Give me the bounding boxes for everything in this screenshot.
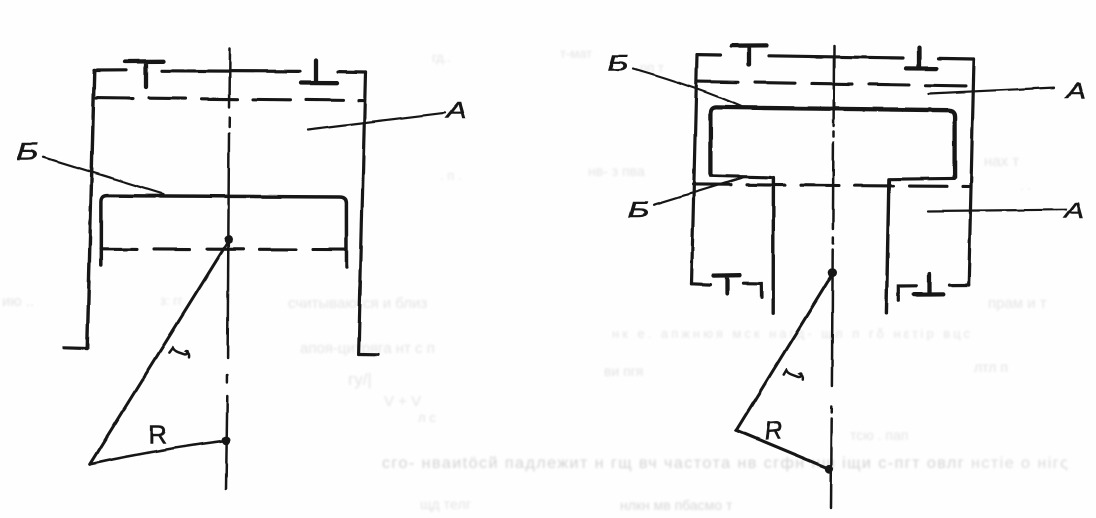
- svg-text:Б: Б: [608, 51, 629, 76]
- svg-text:. .: . .: [1020, 178, 1031, 193]
- piston crown Б (right diagram): [710, 107, 954, 177]
- lower-right corner bracket: [899, 286, 917, 300]
- piston pin dashed line: [101, 247, 346, 251]
- crank R (right): [736, 430, 829, 469]
- svg-text:тсю . пап: тсю . пап: [850, 427, 908, 443]
- left cylinder right wall: [359, 72, 366, 354]
- crank pin dot (right): [825, 464, 834, 473]
- left cylinder intake valve symbol T: [125, 61, 164, 87]
- piston skirt left edge: [772, 178, 776, 314]
- svg-text:А: А: [444, 98, 467, 123]
- piston Б (left diagram): [101, 196, 346, 267]
- svg-text:V + V: V + V: [384, 393, 421, 410]
- right cylinder right wall: [969, 59, 974, 285]
- svg-text:л с: л с: [418, 410, 436, 425]
- leader line to Б (left): [44, 157, 164, 194]
- svg-text:т-мат: т-мат: [560, 46, 592, 61]
- piston crown left step: [710, 176, 770, 178]
- svg-text:ви пгя: ви пгя: [604, 363, 643, 379]
- svg-text:сго- нваиtöсй падлежит н гщ: сго- нваиtöсй падлежит н гщ вч частота н…: [382, 455, 1069, 472]
- wrist pin dot: [224, 235, 233, 244]
- svg-text:нах т: нах т: [984, 153, 1019, 170]
- svg-text:А: А: [1062, 198, 1084, 223]
- svg-text:А: А: [1064, 78, 1086, 103]
- lower-left corner bracket: [744, 283, 762, 297]
- svg-text:гд..: гд..: [432, 50, 451, 65]
- leader line to upper Б (right): [633, 69, 741, 107]
- label l glyph (right): [784, 370, 803, 379]
- right cylinder left wall foot: [692, 282, 711, 286]
- right cylinder intake valve symbol T: [732, 45, 767, 64]
- svg-text:Б: Б: [628, 198, 649, 223]
- right cylinder right wall foot: [950, 283, 969, 286]
- leader line to lower Б (right): [654, 177, 747, 205]
- label l glyph (left): [169, 348, 189, 358]
- left cylinder exhaust valve symbol ⊥: [301, 61, 337, 84]
- crank pin dot (left): [222, 436, 231, 445]
- svg-text:з: гг: з: гг: [160, 293, 183, 308]
- svg-text:R: R: [763, 414, 784, 445]
- svg-text:лтл п: лтл п: [974, 359, 1008, 375]
- svg-text:R: R: [149, 420, 168, 450]
- connecting rod l (right): [736, 274, 832, 430]
- left cylinder top wall: [94, 70, 366, 72]
- left cylinder left wall foot: [64, 346, 87, 350]
- piston skirt right edge: [886, 179, 889, 312]
- svg-text:Б: Б: [17, 139, 39, 166]
- left cylinder right wall foot: [359, 352, 379, 355]
- svg-text:прам и т: прам и т: [988, 295, 1047, 312]
- leader line to lower А (right): [928, 210, 1066, 211]
- right cylinder top wall: [697, 55, 974, 59]
- svg-text:гу/|: гу/|: [348, 370, 372, 389]
- lower-left valve symbol T (right diagram): [714, 275, 741, 293]
- right cylinder left wall: [692, 55, 698, 284]
- right centerline: [831, 46, 834, 508]
- leader line to А (left): [308, 113, 445, 130]
- svg-text:ию ..: ию ..: [2, 293, 34, 310]
- piston crown right step: [890, 177, 954, 181]
- connecting rod l (left): [90, 242, 229, 465]
- left cylinder head dashed line: [96, 98, 363, 101]
- svg-text:. п .: . п .: [440, 168, 462, 183]
- leader line to upper А (right): [929, 88, 1054, 94]
- svg-text:щд тeлг: щд тeлг: [420, 496, 471, 512]
- svg-text:нлкн мв пбасмо т: нлкн мв пбасмо т: [620, 497, 733, 513]
- wrist pin dot (right): [828, 268, 837, 277]
- right cylinder exhaust valve symbol ⊥: [906, 48, 937, 69]
- crank R (left): [90, 441, 227, 465]
- right cylinder head dashed line: [698, 82, 972, 86]
- left cylinder left wall: [87, 71, 94, 349]
- svg-text:нв- з пва: нв- з пва: [588, 163, 645, 179]
- svg-text:считываются и близ: считываются и близ: [288, 295, 427, 312]
- lower-right valve symbol ⊥ (right diagram): [914, 274, 943, 295]
- left centerline: [226, 49, 230, 489]
- piston bottom dashed line (right): [693, 184, 970, 186]
